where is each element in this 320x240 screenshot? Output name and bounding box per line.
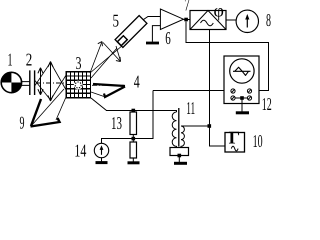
transformer 11: primary winding (left) [165,111,177,148]
ray lens L2 to grid (crossing) [51,76,66,101]
optical axis (dash-dot) [36,82,66,84]
transformer base box [170,148,189,156]
wire between resistors [132,135,134,143]
wire resistor R2 to ground [132,158,134,162]
ray grid to image point (arrow up) [90,42,102,74]
lens L2 (double arrow) [48,61,53,101]
node (top of resistor R1) [132,109,136,113]
ray slit to lens L2 bottom (crossing) [35,81,51,101]
wire scope ground down [241,98,243,112]
wire box 7 output down [209,30,225,147]
ray crossing to lower image point (arrow) [103,43,121,62]
wire detector to amplifier [144,17,161,20]
ground (amplifier 6) [146,42,159,45]
ray detector window to lower image point [116,46,121,61]
meter 8 (circle with arrow) [236,10,258,32]
ray grid to mirror 9 (long) [32,89,64,125]
svg-text:2: 2 [26,50,33,70]
wire reference: box7 input down, across top, down right side to oscilloscope [186,21,268,90]
optical axis of mirror 4 (dash-dot) [92,84,124,86]
wire bus down to resistor divider [133,91,153,139]
svg-text:13: 13 [111,113,122,133]
meter 14 (circle with arrow) [94,143,108,157]
node (divider midpoint) [132,137,136,141]
wire reference bus to oscilloscope left input [153,90,230,92]
wire meter 14 to divider midpoint [102,139,134,144]
node (tap junction, transformer to bus) [208,124,212,128]
svg-text:3: 3 [76,53,82,73]
svg-text:12: 12 [262,94,272,114]
svg-text:9: 9 [20,113,25,133]
svg-text:10: 10 [253,131,263,151]
resistor R2 (lower of 13) [130,142,137,158]
ground (meter 14) [96,161,108,164]
generator 10 (box with G and sine) [225,127,245,152]
node (transformer base) [178,154,182,158]
ray grid edge upward [91,48,117,78]
resistor R1 (upper of 13) [130,111,137,135]
ray slit to lens L2 top (crossing) [35,63,51,86]
ray grid to detector window [90,40,130,74]
svg-text:4: 4 [134,72,140,92]
wire grid to resistor divider (signal) [91,98,107,111]
transformer 11: core [178,108,180,147]
ray lens L2 to grid (crossing) [51,63,66,90]
ground (oscilloscope) [236,111,249,114]
svg-text:14: 14 [74,141,86,161]
wire transformer base to ground [178,156,180,163]
svg-text:11: 11 [186,98,195,118]
terminal (scope, bottom-left) [231,96,235,100]
svg-text:φ: φ [214,1,224,21]
source 1 (radiation source, quadrant circle) [1,72,21,92]
svg-text:1: 1 [8,50,13,70]
svg-text:Γ: Γ [229,127,240,147]
grid 3 (mesh target) [66,71,92,99]
oscilloscope 12 (box with screen and terminals) [224,56,259,104]
ray grid corner to mirror 9 [56,97,66,120]
svg-text:7: 7 [184,0,190,15]
ground (transformer) [174,162,187,165]
wire meter 14 to ground [101,158,103,162]
svg-text:8: 8 [266,10,271,30]
amplifier 6 (triangle) [160,9,183,30]
svg-text:6: 6 [165,28,171,48]
terminal (scope, top-right) [247,89,251,93]
mirror 4 (V mirror) [93,84,125,97]
lens L1 (double arrow) [38,68,43,95]
phase detector 7 (box with diagonal, sine, phi) [190,1,226,30]
ray grid edge to mirror 4 lower arm [91,92,104,97]
svg-text:5: 5 [113,11,120,31]
detector tube 5 [115,16,147,48]
ground (resistor R2) [128,161,140,164]
node (scope ground) [240,96,244,100]
wire between scope ground terminals [235,97,247,99]
wire amplifier to ground [152,26,160,42]
transformer 11: secondary winding (right) [181,126,185,148]
slit 2 (diaphragm, two plates) [30,70,35,95]
terminal (scope, bottom-right) [247,96,251,100]
wire secondary to tap junction [185,125,209,127]
mirror 9 (thick strokes) [31,99,60,127]
node (junction at box 7 input) [184,18,188,22]
wire amplifier to box 7 [184,19,191,21]
wire beam from source to slit [21,82,30,86]
terminal (scope, top-left) [231,89,235,93]
wire box 7 to meter 8 [226,19,236,21]
